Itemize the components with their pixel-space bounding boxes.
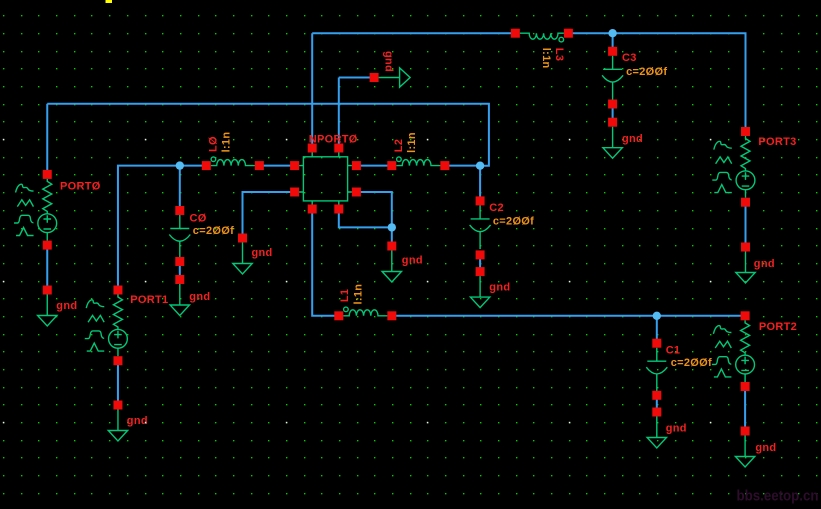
- svg-text:gnd: gnd: [754, 258, 775, 270]
- wire C1 drop: [656, 316, 658, 343]
- svg-text:gnd: gnd: [622, 133, 643, 145]
- wire C2 mid: [479, 255, 481, 272]
- svg-text:C2: C2: [489, 202, 504, 214]
- svg-text:gnd: gnd: [383, 51, 395, 72]
- wire NPORT0 rb side pin to junction: [356, 192, 391, 246]
- inductor L2: [387, 157, 449, 170]
- svg-text:L3: L3: [553, 48, 565, 61]
- ground below C1: [647, 408, 666, 449]
- n-port NPORT0 pins: [290, 144, 361, 214]
- wire C3 mid: [612, 104, 614, 122]
- ground below C2: [470, 267, 489, 308]
- svg-text:c=2ØØf: c=2ØØf: [193, 225, 234, 237]
- components go here: [14, 29, 755, 467]
- wire top row y33 left segment: [312, 32, 515, 34]
- capacitor C1 lower pin: [652, 391, 661, 400]
- junction at L0/C0/PORT1 node: [176, 161, 184, 169]
- svg-text:l:1n: l:1n: [406, 132, 418, 153]
- svg-text:gnd: gnd: [755, 442, 776, 454]
- svg-text:c=2ØØf: c=2ØØf: [671, 357, 712, 369]
- wire C0 drop: [179, 166, 181, 211]
- texts go here: [56, 48, 797, 454]
- svg-text:gnd: gnd: [402, 254, 423, 266]
- ground below PORT3: [736, 243, 755, 284]
- port PORT0: [14, 170, 57, 250]
- svg-text:PORT1: PORT1: [130, 294, 168, 306]
- capacitor C1: [646, 339, 667, 392]
- wire C1 mid: [656, 395, 658, 412]
- svg-text:L1: L1: [339, 289, 351, 302]
- junction at L3/C3 node: [608, 29, 616, 37]
- svg-text:PORT3: PORT3: [758, 136, 796, 148]
- wire NPORT0 bl pin to L1: [312, 209, 339, 316]
- wire NPORT0 br pin to junction: [339, 209, 392, 227]
- ground below C0: [170, 275, 189, 316]
- wire PORT2 bottom to gnd: [744, 387, 746, 432]
- ground for NPORT0 left-bottom pin: [233, 234, 252, 275]
- wire L2 to junction: [445, 165, 480, 167]
- ground below C3: [603, 118, 622, 159]
- wire riser NPORT0 tr pin: [338, 78, 340, 149]
- wire L1 to PORT2: [392, 315, 745, 317]
- wire NPORT0 to L2: [356, 165, 391, 167]
- wire PORT3 bottom to gnd: [745, 202, 747, 247]
- svg-text:CØ: CØ: [190, 212, 207, 224]
- svg-text:gnd: gnd: [56, 300, 77, 312]
- ground below PORT0: [38, 286, 57, 327]
- wire top gnd arrow: [339, 77, 374, 79]
- wire PORT1 bottom to gnd: [117, 361, 119, 405]
- svg-text:gnd: gnd: [189, 291, 210, 303]
- n-port NPORT0 box: [299, 153, 352, 205]
- junction at L2/C2 node: [476, 162, 484, 170]
- inductor L1: [334, 307, 396, 320]
- port PORT2: [712, 311, 755, 391]
- wires go here: [47, 33, 745, 431]
- capacitor C3: [602, 47, 623, 100]
- svg-text:L2: L2: [393, 139, 405, 152]
- junction at L1/C1/PORT2 node: [653, 312, 661, 320]
- ground below PORT2: [735, 427, 754, 468]
- wire PORT0 bottom to gnd: [46, 245, 48, 290]
- svg-text:gnd: gnd: [252, 247, 273, 259]
- svg-text:PORTØ: PORTØ: [60, 181, 101, 193]
- wire C0 mid: [179, 262, 181, 280]
- svg-text:LØ: LØ: [208, 136, 220, 152]
- svg-text:bbs.eetop.cn: bbs.eetop.cn: [737, 488, 819, 505]
- capacitor C2: [470, 196, 491, 249]
- svg-text:l:1n: l:1n: [540, 48, 552, 69]
- svg-text:l:1n: l:1n: [353, 284, 365, 305]
- wire L0 to NPORT0: [259, 165, 294, 167]
- svg-text:NPORTØ: NPORTØ: [309, 134, 358, 146]
- capacitor C2 lower pin: [476, 250, 485, 259]
- wire junction to L0: [180, 165, 207, 167]
- inductor L0: [202, 157, 264, 170]
- wire riser NPORT0 tl pin: [311, 33, 313, 148]
- svg-text:c=2ØØf: c=2ØØf: [626, 66, 667, 78]
- port PORT3: [712, 127, 755, 207]
- inductor L3 (rotated 180): [511, 29, 573, 42]
- svg-text:PORT2: PORT2: [759, 321, 797, 333]
- wire top row y33 right segment + drop to PORT3: [568, 33, 745, 131]
- svg-text:C1: C1: [666, 345, 681, 357]
- wire y104 row + jog down to junction: [47, 104, 489, 166]
- major grid white dots: [3, 139, 712, 424]
- wire NPORT0 lb pin to gnd: [243, 192, 295, 238]
- svg-text:l:1n: l:1n: [221, 132, 233, 153]
- ground below PORT1: [108, 401, 127, 442]
- yellow cursor mark top left: [106, 0, 113, 3]
- svg-text:gnd: gnd: [489, 282, 510, 294]
- svg-text:c=2ØØf: c=2ØØf: [493, 215, 534, 227]
- wire PORT1 riser: [118, 166, 180, 290]
- capacitor C0: [169, 206, 190, 259]
- svg-text:gnd: gnd: [666, 423, 687, 435]
- wire C2 drop: [479, 166, 481, 201]
- svg-text:C3: C3: [622, 52, 637, 64]
- wire C3 drop: [612, 33, 614, 51]
- port PORT1: [85, 286, 128, 366]
- ground arrow top (rotated, points right): [370, 68, 411, 87]
- capacitor C0 lower pin: [175, 257, 184, 266]
- capacitor C3 lower pin: [608, 100, 617, 109]
- ground for NPORT0 right-bottom pin: [382, 242, 401, 283]
- junction at NPORT0 rb node: [388, 223, 396, 231]
- wire PORT0 riser: [46, 104, 48, 175]
- svg-text:gnd: gnd: [127, 415, 148, 427]
